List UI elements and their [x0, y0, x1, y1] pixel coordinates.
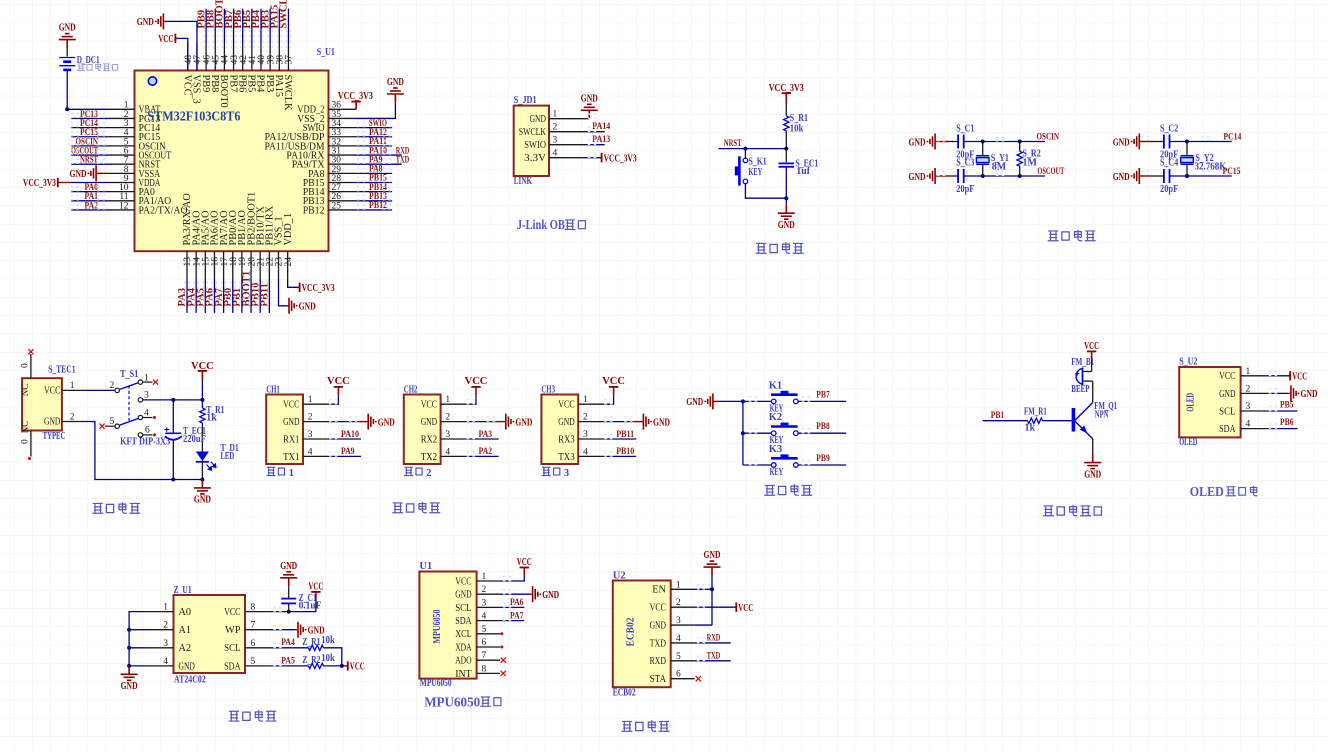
ground GND cap [280, 572, 297, 586]
wire VSS_2 to ground [356, 102, 395, 118]
svg-text:OLED: OLED [1186, 393, 1197, 412]
svg-text:2: 2 [1246, 384, 1251, 394]
pin 2 GND [477, 593, 501, 595]
wire gnd to cap S_C1 [949, 141, 958, 143]
wire net PB4 [260, 9, 262, 43]
svg-text:SWIO: SWIO [524, 140, 546, 151]
wire net BOOT1 [250, 279, 252, 313]
svg-text:3: 3 [1246, 402, 1251, 412]
svg-text:1: 1 [553, 110, 558, 120]
pin 1 GND [549, 118, 585, 120]
svg-text:GND: GND [1084, 469, 1101, 480]
junction vcc branch [200, 398, 204, 402]
resistor Z_R2 [308, 663, 323, 668]
svg-text:3: 3 [676, 616, 681, 626]
pin 4 SDA [1241, 428, 1268, 430]
wire net PA2 [467, 455, 499, 457]
wire collector [1092, 381, 1094, 403]
wire gnd to bus [719, 400, 743, 402]
switch link dashed [128, 386, 130, 422]
pin 29 PA8 [329, 172, 357, 174]
svg-text:VCC: VCC [308, 582, 323, 593]
wire cap to gnd [785, 168, 787, 205]
svg-text:GND: GND [686, 397, 703, 408]
wire resistor to base [1043, 420, 1072, 422]
pin 40 PB4 [260, 43, 262, 71]
module U2 body [613, 581, 671, 688]
svg-text:6: 6 [676, 670, 681, 680]
connector CH1 body [266, 395, 303, 465]
svg-text:1: 1 [1246, 367, 1251, 377]
wire cap to PC14 [1170, 141, 1232, 143]
junction gnd [127, 664, 131, 668]
wire r1 to corner [323, 648, 341, 666]
svg-text:4: 4 [676, 634, 681, 644]
svg-text:S_U1: S_U1 [317, 47, 335, 58]
compile marks keys [749, 397, 757, 401]
wire net PB10 [259, 279, 261, 313]
svg-text:PB9: PB9 [816, 453, 830, 464]
svg-text:2: 2 [676, 598, 681, 608]
junction pin8 [287, 610, 291, 614]
wire net SWIO [356, 127, 392, 129]
junction [784, 147, 788, 151]
svg-text:3: 3 [445, 430, 450, 440]
pin 14 PA4/AO [195, 251, 197, 279]
ground GND reset [778, 205, 795, 219]
svg-text:CH1: CH1 [266, 384, 280, 395]
capacitor S_EC1 [779, 162, 795, 164]
pin 6 STA [671, 678, 695, 680]
svg-text:PB8: PB8 [816, 421, 830, 432]
wire cap branch [288, 603, 290, 611]
designator serial-port 3 [542, 467, 551, 475]
junction crystal bottom [981, 174, 985, 178]
pin 1 VCC [441, 403, 467, 405]
wire gnd to cap S_C2 [1153, 141, 1164, 143]
pin 28 PB15 [329, 182, 357, 184]
wire net PA13 [585, 144, 605, 146]
svg-text:NRST: NRST [80, 155, 98, 166]
svg-text:GND: GND [909, 137, 926, 148]
svg-text:TXD: TXD [650, 638, 667, 649]
ground GND mpu [533, 586, 538, 602]
no-connect pin6 [500, 646, 503, 649]
junction crystal2 bottom [1185, 174, 1189, 178]
svg-text:10k: 10k [321, 635, 335, 646]
pin 26 PB13 [329, 200, 357, 202]
compile marks storage [273, 607, 281, 611]
svg-text:LED: LED [221, 451, 235, 462]
svg-text:PA10: PA10 [341, 429, 359, 440]
pin 4 3.3V [549, 157, 585, 159]
svg-text:3: 3 [144, 391, 149, 401]
wire cap to OSCIN [964, 141, 1045, 143]
wire net PA4 [273, 647, 309, 649]
pin 23 VSS_1 [278, 251, 280, 279]
svg-text:GND: GND [421, 417, 438, 428]
svg-text:20pF: 20pF [1160, 184, 1178, 195]
svg-text:WP: WP [225, 625, 241, 636]
svg-text:SWCLK: SWCLK [282, 75, 293, 112]
pin 30 PA9/TX [329, 163, 357, 165]
power VCC bt [734, 606, 737, 608]
svg-text:EN: EN [652, 585, 666, 596]
no-connect pin5 [500, 632, 503, 635]
pin 4 TX2 [441, 455, 467, 457]
svg-text:GND: GND [280, 561, 297, 572]
svg-text:4: 4 [308, 447, 313, 457]
capacitor S_C4 [1163, 169, 1165, 183]
svg-text:GND: GND [653, 417, 670, 428]
transistor FM_Q1 [1072, 408, 1076, 432]
svg-text:SDA: SDA [455, 616, 472, 627]
ground GND c4 [1134, 168, 1139, 184]
pin 3 RX1 [303, 438, 329, 440]
svg-text:GND: GND [194, 495, 211, 506]
svg-text:ADO: ADO [455, 656, 472, 667]
designator serial-port 2 [404, 467, 413, 475]
key K3 [771, 463, 776, 468]
wire pin2 to rail [87, 422, 203, 480]
wire net PA7 [223, 279, 225, 313]
svg-text:4: 4 [445, 447, 450, 457]
switch pin1 stub [143, 381, 153, 383]
svg-text:VCC: VCC [44, 386, 60, 397]
svg-text:PB10: PB10 [616, 446, 634, 457]
wire pin4 to VCC_3V3 [585, 157, 599, 159]
pin 42 PB6 [242, 43, 244, 71]
wire net PC15 [71, 136, 107, 138]
svg-text:OSCOUT: OSCOUT [1037, 166, 1064, 177]
ground GND serial [506, 414, 511, 430]
wire net PA0 [71, 191, 107, 193]
wire cap to rail [172, 440, 174, 479]
wire buzzer to VCC [1091, 360, 1093, 372]
junction EN [710, 587, 714, 591]
svg-text:GND: GND [542, 590, 559, 601]
pin 2 VCC [671, 606, 695, 608]
pin 12 PA2/TX/AO [107, 209, 135, 211]
svg-text:VCC: VCC [465, 376, 488, 387]
wire net OSCIN [71, 145, 107, 147]
svg-text:PA7: PA7 [510, 610, 524, 621]
wire net PA3 [467, 438, 499, 440]
wire net PA1 [71, 200, 107, 202]
svg-text:K3: K3 [769, 444, 782, 455]
svg-text:VCC: VCC [455, 576, 471, 587]
svg-text:1: 1 [676, 580, 681, 590]
svg-text:0: 0 [21, 363, 31, 368]
svg-text:3.3V: 3.3V [524, 153, 546, 164]
caption power circuit [92, 503, 103, 513]
pin 34 SWIO [329, 127, 357, 129]
svg-text:GND: GND [558, 417, 575, 428]
junction bottom [784, 196, 788, 200]
svg-text:1: 1 [482, 572, 487, 582]
svg-text:PA6: PA6 [510, 597, 524, 608]
no-connect STA [696, 676, 701, 681]
capacitor T_EC1 branch wire [172, 400, 174, 433]
power VCC buzzer [1091, 351, 1093, 359]
compile marks mpu [503, 576, 511, 580]
svg-text:8: 8 [251, 603, 256, 613]
wire net PC14 [71, 127, 107, 129]
wire net SWCLK [287, 9, 289, 43]
pin 3 PC14 [107, 127, 135, 129]
wire net PA5 [204, 279, 206, 313]
svg-text:RX3: RX3 [558, 434, 574, 445]
wire LED to rail [201, 462, 203, 480]
svg-text:K2: K2 [769, 412, 782, 423]
svg-text:STM32F103C8T6: STM32F103C8T6 [147, 109, 240, 124]
pin 36 VDD_2 [329, 108, 357, 110]
wire net PB15 [356, 182, 392, 184]
svg-text:GND: GND [121, 681, 138, 692]
svg-text:SCL: SCL [455, 603, 471, 614]
wire NRST [719, 148, 787, 150]
switch pin6 stub [143, 434, 153, 436]
pin 24 VDD_1 [287, 251, 289, 279]
compile marks crystals [937, 137, 945, 141]
battery D_DC1 [59, 57, 75, 59]
resistor S_R1 [784, 116, 789, 131]
wire pin2 to ground [605, 421, 634, 423]
pin 38 PA15 [278, 43, 280, 71]
svg-text:VCC: VCC [327, 376, 350, 387]
svg-text:OSCIN: OSCIN [1037, 131, 1060, 142]
power VCC top [175, 37, 178, 39]
wire net PB5 [251, 9, 253, 43]
svg-text:5: 5 [482, 625, 487, 635]
pin 41 PB5 [251, 43, 253, 71]
svg-text:VCC: VCC [558, 400, 574, 411]
svg-text:24: 24 [284, 257, 294, 267]
pin 7 WP [245, 629, 273, 631]
svg-text:1: 1 [583, 395, 588, 405]
ground bottom GND [289, 298, 294, 314]
wire pin1 to VCC [329, 395, 338, 404]
wire cap to PC15 [1170, 175, 1232, 177]
svg-text:0.1uF: 0.1uF [299, 601, 322, 612]
junction crystal2 top [1185, 140, 1189, 144]
key K1 [771, 399, 776, 404]
wire resistor to LED [201, 423, 203, 452]
capacitor S_C3 [957, 169, 959, 183]
capacitor T_EC1 [165, 432, 181, 434]
compile marks top pins [204, 30, 208, 38]
svg-text:3: 3 [482, 598, 487, 608]
svg-text:S_C2: S_C2 [1160, 123, 1178, 134]
svg-text:VCC: VCC [650, 603, 666, 614]
svg-text:VCC: VCC [224, 607, 240, 618]
pin 5 RXD [671, 660, 695, 662]
svg-text:2: 2 [163, 621, 168, 631]
wire net PA6 [213, 279, 215, 313]
pin 19 PB1/AO [241, 251, 243, 279]
svg-text:GND: GND [387, 77, 404, 88]
pin 9 VDDA [107, 182, 135, 184]
ground GND wp [298, 622, 303, 638]
svg-text:PC14: PC14 [1223, 131, 1241, 142]
ground GND c1 [930, 134, 935, 150]
wire net PB3 [269, 9, 271, 43]
wire net PB8 [214, 9, 216, 43]
designator serial-port 1 [266, 467, 275, 475]
pin 1 VCC [578, 403, 604, 405]
svg-text:S_C1: S_C1 [956, 123, 974, 134]
svg-text:GND: GND [909, 172, 926, 183]
wire net PA6 [500, 606, 524, 608]
wire net PB6 [242, 9, 244, 43]
svg-text:GND: GND [299, 302, 316, 313]
crystal S_Y1 [982, 142, 984, 156]
svg-text:TYPEC: TYPEC [43, 431, 66, 442]
wire key bottom [745, 184, 786, 199]
pin 3 RX3 [578, 438, 604, 440]
wire VDD_1 to VCC_3V3 [288, 279, 297, 288]
wire pin2 to ground [329, 421, 358, 423]
wire net PB11 [605, 438, 637, 440]
power VCC pullups [345, 665, 348, 667]
svg-text:VCC_3V3: VCC_3V3 [604, 154, 637, 165]
svg-text:SDA: SDA [224, 661, 241, 672]
svg-text:2: 2 [482, 585, 487, 595]
pin 6 XDA [477, 646, 501, 648]
junction bus k1 [741, 399, 745, 403]
compile marks bt [697, 585, 705, 589]
svg-text:PB11: PB11 [260, 283, 271, 306]
svg-text:RXD: RXD [650, 656, 667, 667]
wire net PB7 [233, 9, 235, 43]
battery ground GND [59, 34, 76, 48]
svg-text:VCC: VCC [738, 603, 753, 614]
ground GND c2 [1134, 134, 1139, 150]
ground GND buzzer [1084, 454, 1101, 468]
wire net PA3 [186, 279, 188, 313]
svg-text:VCC: VCC [283, 400, 299, 411]
ground GND bt [704, 561, 721, 575]
pin 4 PC15 [107, 136, 135, 138]
svg-text:LINK: LINK [514, 176, 533, 187]
svg-text:GND: GND [1301, 389, 1318, 400]
svg-text:A2: A2 [179, 643, 192, 654]
svg-text:GND: GND [530, 114, 547, 125]
ground top GND [164, 20, 168, 22]
capacitor S_C1 [957, 135, 959, 149]
wire net PB8 [798, 432, 846, 434]
switch lever 5-4 [119, 418, 139, 425]
svg-text:PB5: PB5 [1280, 399, 1294, 410]
svg-text:1uf: 1uf [796, 166, 810, 177]
svg-text:5: 5 [251, 657, 256, 667]
svg-text:2: 2 [70, 412, 75, 422]
svg-text:1k: 1k [206, 413, 217, 424]
pin 15 PA5/AO [204, 251, 206, 279]
pin 3 SCL [477, 606, 501, 608]
key bus vertical wire [742, 401, 744, 465]
pin 6 OSCOUT [107, 154, 135, 156]
pin 3 GND [671, 624, 695, 626]
wire net PB5 [1268, 410, 1298, 412]
svg-text:TX2: TX2 [421, 452, 437, 463]
svg-text:GND: GND [704, 550, 721, 561]
wire net PB11 [268, 279, 270, 313]
svg-text:VCC: VCC [517, 557, 532, 568]
connector CH2 body [404, 395, 441, 465]
svg-text:MPU6050: MPU6050 [432, 610, 443, 644]
power VCC mpu [523, 568, 525, 576]
svg-text:A0: A0 [179, 607, 192, 618]
svg-text:NPN: NPN [1095, 410, 1109, 421]
svg-text:10k: 10k [321, 653, 335, 664]
junction pullup [340, 664, 344, 668]
svg-text:GND: GND [1113, 137, 1130, 148]
pin 1 EN [671, 588, 695, 590]
wire net PB13 [356, 200, 392, 202]
svg-text:GND: GND [378, 417, 395, 428]
connector CH3 body [541, 395, 578, 465]
svg-text:2: 2 [553, 123, 558, 133]
pin 44 BOOT0 [223, 43, 225, 71]
svg-text:GND: GND [59, 23, 76, 34]
pin 2 SWCLK [549, 131, 585, 133]
svg-text:KEY: KEY [770, 467, 784, 478]
svg-text:PA2: PA2 [479, 446, 493, 457]
pin 2 GND [441, 421, 467, 423]
wire net NRST [71, 163, 107, 165]
junction bus k2 [741, 431, 745, 435]
svg-text:1M: 1M [1023, 158, 1038, 169]
pin 11 PA1/AO [107, 200, 135, 202]
svg-text:2: 2 [445, 413, 450, 423]
junction a2 [127, 646, 131, 650]
pin 8 VSSA [107, 172, 135, 174]
svg-text:NC: NC [20, 421, 30, 434]
pin 6 SCL [245, 647, 273, 649]
junction crystal top [981, 140, 985, 144]
svg-text:3: 3 [583, 430, 588, 440]
svg-text:AT24C02: AT24C02 [174, 675, 206, 686]
caption buzzer circuit [1043, 506, 1054, 516]
buzzer FM_B1 [1084, 380, 1093, 382]
wire net PA2 [71, 209, 107, 211]
pin 4 SDA [477, 620, 501, 622]
pin 20 PB2/BOOT1 [250, 251, 252, 279]
pin 7 ADO [477, 659, 501, 661]
svg-text:1k: 1k [1025, 423, 1036, 434]
svg-text:0: 0 [21, 439, 31, 444]
connector S_U2 body [1179, 367, 1240, 437]
svg-text:GND: GND [179, 661, 196, 672]
svg-text:GND: GND [1219, 389, 1236, 400]
ground GND keys [708, 393, 713, 409]
wire VCC to pin 48 [178, 38, 188, 70]
svg-text:VCC_3V3: VCC_3V3 [338, 91, 373, 102]
svg-text:Z_R1: Z_R1 [302, 637, 320, 648]
svg-text:VDD_1: VDD_1 [283, 213, 294, 246]
svg-text:T_S1: T_S1 [120, 369, 138, 380]
svg-text:20pF: 20pF [956, 184, 974, 195]
wire net PA7 [500, 620, 524, 622]
svg-text:7: 7 [251, 621, 256, 631]
caption bluetooth module [622, 721, 633, 731]
svg-text:INT: INT [455, 669, 472, 680]
svg-text:RX2: RX2 [421, 434, 437, 445]
wire net PA10 [356, 154, 402, 156]
wire net PA9 [356, 163, 402, 165]
caption key circuit [764, 485, 775, 495]
